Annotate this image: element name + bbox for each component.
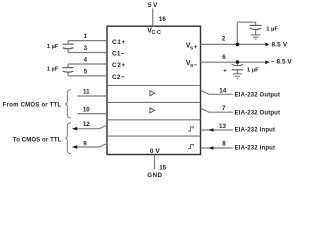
svg-text:C1−: C1− (112, 50, 125, 57)
svg-text:11: 11 (83, 89, 90, 96)
svg-text:7: 7 (222, 105, 226, 112)
svg-text:6: 6 (222, 54, 226, 61)
svg-text:1: 1 (84, 33, 88, 40)
svg-text:+: + (223, 69, 227, 75)
svg-text:5 V: 5 V (148, 2, 158, 9)
svg-text:EIA-232 Output: EIA-232 Output (235, 93, 280, 99)
svg-text:1 µF: 1 µF (47, 67, 59, 73)
svg-text:14: 14 (219, 87, 226, 94)
svg-text:12: 12 (83, 121, 90, 128)
svg-text:EIA-232 Input: EIA-232 Input (235, 128, 275, 134)
svg-text:8.5 V: 8.5 V (272, 41, 288, 48)
svg-text:1 µF: 1 µF (266, 27, 278, 33)
svg-text:16: 16 (159, 16, 167, 23)
svg-text:EIA-232 Output: EIA-232 Output (235, 110, 280, 116)
svg-text:C1+: C1+ (112, 39, 125, 46)
svg-text:1 µF: 1 µF (247, 68, 259, 74)
svg-text:From CMOS or TTL: From CMOS or TTL (3, 102, 62, 108)
svg-text:1 µF: 1 µF (47, 44, 59, 50)
svg-text:GND: GND (147, 172, 162, 179)
svg-text:−: − (193, 62, 197, 69)
svg-text:5: 5 (84, 68, 88, 75)
svg-text:C2+: C2+ (112, 62, 125, 69)
svg-text:8: 8 (222, 141, 226, 148)
svg-text:+: + (194, 44, 198, 51)
svg-text:CC: CC (152, 30, 161, 36)
svg-text:4: 4 (84, 57, 88, 64)
svg-text:3: 3 (84, 45, 88, 52)
svg-text:10: 10 (83, 106, 90, 113)
svg-text:C2−: C2− (112, 74, 125, 81)
svg-text:EIA-232 Input: EIA-232 Input (235, 146, 275, 152)
svg-text:To CMOS or TTL: To CMOS or TTL (13, 138, 62, 144)
svg-text:9: 9 (83, 140, 87, 147)
svg-text:0 V: 0 V (150, 148, 160, 155)
svg-text:− 8.5 V: − 8.5 V (271, 59, 293, 66)
svg-text:15: 15 (159, 165, 166, 172)
svg-text:13: 13 (219, 123, 226, 130)
svg-text:2: 2 (222, 36, 226, 43)
